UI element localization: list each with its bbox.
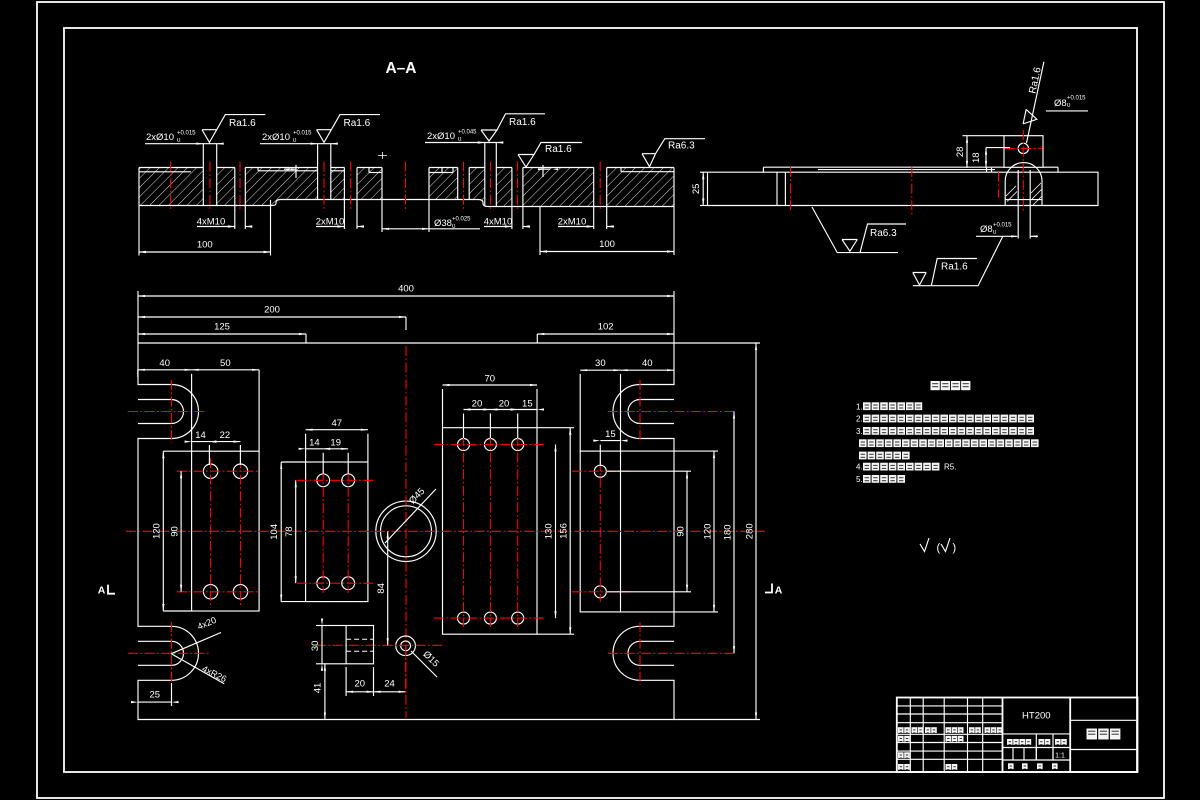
side view boss: [1004, 136, 1043, 168]
svg-text:104: 104: [269, 524, 280, 540]
svg-text:Ø8: Ø8: [980, 224, 993, 235]
B3 centerlines red: [463, 436, 465, 627]
main centerline horizontal red: [126, 530, 765, 532]
boss hole circle: [1018, 143, 1028, 153]
dim 280 right: [674, 342, 760, 344]
svg-text:+0.015: +0.015: [293, 131, 312, 137]
svg-text:130: 130: [544, 523, 555, 539]
dim 25 side view: [700, 171, 708, 173]
svg-text:125: 125: [214, 322, 230, 333]
slot leader 4x20: [171, 633, 221, 654]
B4 centerlines red: [599, 461, 601, 602]
side view plate outline: [708, 172, 1099, 205]
svg-text:30: 30: [595, 358, 606, 369]
svg-text:Ra1.6: Ra1.6: [941, 262, 968, 273]
surface mark Ra1.6 no.2: [317, 115, 380, 143]
svg-text:Ra1.6: Ra1.6: [509, 117, 536, 128]
boss step ticks: [986, 168, 988, 172]
svg-text:A–A: A–A: [385, 60, 416, 77]
svg-text:25: 25: [149, 690, 160, 701]
svg-text:78: 78: [284, 526, 295, 537]
svg-text:30: 30: [310, 641, 321, 652]
section bar hatched body: [139, 168, 674, 207]
title block small labels: [898, 727, 904, 733]
svg-text:19: 19: [330, 438, 341, 449]
title block left grid: [909, 698, 911, 773]
section cut mark A right: [765, 584, 772, 593]
dim 15 right: [599, 445, 601, 466]
Phi15 leader: [411, 651, 437, 677]
bushing hole lines: [1017, 170, 1019, 206]
svg-text:28: 28: [955, 147, 966, 158]
dim 125: [305, 334, 307, 343]
svg-text:22: 22: [220, 430, 231, 441]
svg-text:4xM10: 4xM10: [197, 217, 226, 228]
dim 90 left: [180, 471, 182, 592]
svg-text:400: 400: [398, 284, 414, 295]
surface mark Ra1.6 bottom right: [913, 273, 926, 286]
dim 156: [537, 427, 574, 429]
svg-text:50: 50: [220, 358, 231, 369]
dim 120 left: [163, 450, 191, 452]
boss box B2 middle: [306, 462, 368, 602]
svg-text:2.: 2.: [856, 415, 863, 424]
dim 70: [442, 389, 444, 428]
B1 holes: [203, 464, 217, 478]
surface mark Ra1.6 no.1: [202, 115, 265, 143]
svg-text:180: 180: [723, 524, 734, 540]
svg-text:Ø38: Ø38: [434, 218, 452, 229]
svg-text:+0.025: +0.025: [452, 217, 471, 223]
dim 28 side view: [966, 136, 968, 168]
dim 84: [387, 531, 389, 645]
drill bushing in plate: [1005, 163, 1042, 206]
svg-text:280: 280: [745, 523, 756, 539]
svg-text:+0.015: +0.015: [993, 223, 1012, 229]
dim 400: [137, 291, 139, 343]
svg-text:Ra6.3: Ra6.3: [870, 228, 897, 239]
svg-text:41: 41: [313, 683, 324, 694]
title block right cells: [1070, 719, 1137, 721]
svg-text:90: 90: [170, 526, 181, 537]
svg-text:2xØ10: 2xØ10: [146, 132, 174, 143]
svg-text:+0.015: +0.015: [1067, 96, 1086, 102]
pocket outline: [322, 626, 374, 664]
dim 102: [536, 334, 538, 343]
U-slot centerlines red: [171, 380, 173, 443]
side view top rim lines: [763, 166, 1004, 168]
leader to Ra1.6 bottom: [913, 237, 1003, 286]
boss box B3 right middle: [443, 428, 538, 635]
svg-text:1.: 1.: [856, 402, 863, 411]
svg-text:70: 70: [484, 374, 495, 385]
title block HT200 cell: [1003, 733, 1071, 735]
B4 holes: [594, 465, 606, 477]
dim 130: [555, 445, 557, 619]
surface mark Ra1.6 no.3: [481, 114, 545, 141]
svg-text:15: 15: [605, 429, 616, 440]
slot leader 4xR26: [171, 654, 224, 684]
svg-text:Ø8: Ø8: [1054, 98, 1067, 109]
dim 100 left: [138, 206, 140, 256]
svg-text:+0.045: +0.045: [458, 130, 477, 136]
svg-text:Ra1.6: Ra1.6: [545, 144, 572, 155]
svg-text:84: 84: [376, 583, 387, 594]
B2 centerlines red: [322, 470, 324, 593]
part name cell: [1087, 729, 1098, 740]
dim 78: [295, 480, 297, 583]
boss box B1 left: [192, 451, 260, 611]
svg-text:47: 47: [331, 418, 342, 429]
surface mark Ra1.6 no.4 on bar: [518, 143, 582, 168]
svg-text:18: 18: [971, 152, 982, 163]
dim 40 50 left: [137, 370, 139, 377]
svg-text:1:1: 1:1: [1055, 753, 1065, 760]
svg-text:2xØ10: 2xØ10: [262, 132, 290, 143]
svg-text:Ra6.3: Ra6.3: [668, 141, 695, 152]
small depth dim ticks: [284, 165, 296, 178]
svg-text:20: 20: [499, 398, 510, 409]
svg-text:4.: 4.: [856, 463, 863, 472]
leader Phi45: [385, 489, 436, 543]
svg-text:90: 90: [676, 526, 687, 537]
svg-text:20: 20: [355, 679, 366, 690]
leader to Ra6.3 bottom: [812, 207, 898, 253]
svg-text:2xM10: 2xM10: [558, 217, 587, 228]
pocket hidden lines dashed: [346, 638, 373, 640]
svg-text:25: 25: [691, 184, 702, 195]
svg-text:A: A: [98, 585, 106, 597]
plan part outline: [138, 343, 674, 720]
svg-text:102: 102: [598, 322, 614, 333]
dim 20 24 bottom: [345, 667, 347, 696]
dim 120 right: [621, 450, 719, 452]
svg-text:120: 120: [703, 524, 714, 540]
dim 47: [305, 434, 307, 462]
section hole centerlines red: [170, 162, 172, 212]
section bar outline: [139, 167, 674, 169]
dim 90 right: [607, 470, 692, 472]
svg-text:(: (: [937, 542, 941, 554]
svg-text:Ra1.6: Ra1.6: [344, 118, 371, 129]
dim 41: [324, 664, 326, 720]
svg-text:Ra1.6: Ra1.6: [229, 118, 256, 129]
dim 14 19 middle: [322, 453, 324, 474]
surface mark Ra1.6 top right rotated: [1023, 109, 1038, 126]
svg-text:2xØ10: 2xØ10: [427, 131, 455, 142]
top right leader diagonal: [1027, 62, 1044, 143]
boss centerlines red: [1022, 130, 1024, 213]
svg-text:100: 100: [197, 240, 213, 251]
surface mark Ra6.3 on bar: [642, 139, 705, 167]
dim Phi8 below: [1017, 206, 1019, 239]
dim 25 bottom left: [171, 683, 173, 706]
svg-text:40: 40: [642, 358, 653, 369]
bushing hatch: [1006, 183, 1042, 205]
title block middle divider: [1002, 698, 1004, 773]
svg-text:R5.: R5.: [944, 463, 956, 472]
svg-text:24: 24: [384, 679, 395, 690]
section hole openings (hatch knockout): [203, 167, 216, 206]
dim 104: [281, 461, 305, 463]
dim 100 right: [539, 207, 541, 255]
center hole Phi45/Phi38: [376, 501, 436, 561]
svg-text:100: 100: [599, 239, 615, 250]
main centerline vertical red: [405, 346, 407, 718]
svg-text:156: 156: [559, 523, 570, 539]
overall surface marks: [920, 538, 929, 552]
dim 30 pocket: [316, 625, 322, 627]
svg-text:+0.015: +0.015: [177, 131, 196, 137]
svg-text:A: A: [775, 585, 783, 597]
svg-text:120: 120: [152, 523, 163, 539]
side view hole edge lines: [776, 172, 778, 205]
B2 holes: [317, 474, 330, 487]
surface mark Ra6.3 bottom: [842, 240, 857, 252]
dim 20 20 15: [463, 414, 465, 439]
svg-text:5.: 5.: [856, 475, 863, 484]
svg-text:): ): [953, 542, 957, 554]
svg-text:14: 14: [195, 430, 206, 441]
section top-edge ledge lines: [139, 171, 191, 173]
B3 holes: [458, 439, 470, 451]
dim 180 right: [733, 412, 735, 654]
svg-text:HT200: HT200: [1022, 711, 1051, 722]
Phi15 centerline red: [316, 644, 442, 646]
side view centerlines red: [790, 167, 792, 210]
hole Phi15: [396, 636, 416, 656]
svg-text:15: 15: [522, 398, 533, 409]
svg-text:3.: 3.: [856, 427, 863, 436]
svg-text:40: 40: [159, 358, 170, 369]
section top-edge notches: [258, 168, 621, 173]
dim 30 40 right: [579, 374, 581, 451]
U-slot inner arcs: [138, 400, 184, 424]
dim 18 side view: [986, 147, 1010, 149]
title block outline: [897, 698, 1138, 773]
dim 200: [405, 317, 407, 330]
svg-text:20: 20: [472, 398, 483, 409]
B1 centerlines red: [210, 458, 212, 605]
svg-text:14: 14: [309, 438, 320, 449]
dim 14 22 left: [208, 445, 210, 465]
svg-text:200: 200: [264, 305, 280, 316]
section hole edge lines: [202, 168, 204, 206]
tech requirements title: [931, 381, 940, 390]
boss box B4 right: [580, 451, 620, 612]
title block middle cells: [1003, 747, 1071, 749]
